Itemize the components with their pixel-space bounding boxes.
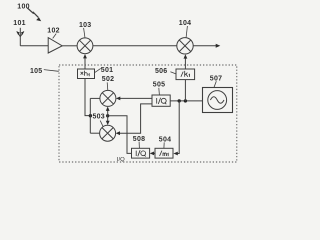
leader 508 (138, 142, 140, 149)
svg-text:103: 103 (79, 22, 91, 29)
svg-text:102: 102 (47, 28, 59, 35)
wire antenna to amp (20, 45, 48, 47)
svg-text:I/Q: I/Q (117, 157, 125, 163)
combiner vertical wire (89, 98, 91, 133)
svg-text:505: 505 (153, 82, 165, 89)
leader 504 (163, 142, 165, 148)
I/Q box 505 (152, 95, 170, 106)
arrow up into 502 bottom (106, 107, 110, 116)
junction dot combiner (89, 114, 92, 117)
leader 505 (158, 88, 161, 95)
mixer 103 (77, 38, 93, 54)
LO wire into mixer 103 (arrow up) (83, 54, 87, 69)
leader 105 (44, 70, 59, 72)
svg-text:508: 508 (133, 136, 145, 143)
dashed box 105 (59, 65, 237, 162)
leader 104 (186, 26, 187, 38)
multiplier box 501 xh1 (78, 69, 95, 79)
oscillator 507 (203, 88, 233, 113)
arrow down into 503 top (106, 116, 110, 125)
antenna 101 (17, 28, 24, 46)
node between 502 and 503 (106, 114, 109, 117)
divider box 504 /m1 (155, 148, 173, 158)
svg-text:100: 100 (17, 4, 29, 11)
mixer 104 (177, 38, 193, 54)
mixer 502 (100, 90, 116, 106)
wire from I/Q 508 up to node (109, 116, 131, 154)
wire amp to mixer 103 (62, 45, 77, 47)
svg-text:501: 501 (101, 67, 113, 74)
leader 507 (214, 81, 217, 88)
oscillator bus (170, 100, 202, 102)
I/Q box 508 (132, 148, 150, 158)
svg-text:503: 503 (93, 114, 105, 121)
leader 102 (53, 34, 57, 39)
wire bus down to /m1 (arrow left) (173, 101, 179, 156)
wire mixer 103 to mixer 104 (93, 45, 177, 47)
svg-text:105: 105 (30, 68, 42, 75)
amplifier 102 (48, 38, 62, 53)
leader 506 (170, 72, 176, 74)
leader 503 (100, 121, 103, 127)
svg-text:101: 101 (13, 20, 25, 27)
leader 501 (95, 68, 101, 72)
wire I/Q 505 second output to mixer 503 (arrow left) (116, 104, 152, 135)
leader 103 (84, 28, 85, 38)
leader 502 (106, 82, 109, 90)
svg-text:502: 502 (102, 76, 114, 83)
leader 100 zigzag arrow (27, 8, 41, 21)
svg-text:504: 504 (159, 136, 171, 143)
divider box 506 /k1 (176, 69, 195, 80)
junction dot to divider k1 (184, 99, 187, 102)
LO wire into mixer 104 (arrow up) (184, 54, 188, 69)
mixer 503 (100, 125, 116, 141)
wire I/Q 505 to mixer 502 (arrow left) (116, 97, 152, 101)
svg-text:506: 506 (155, 68, 167, 75)
wire to mixer 503 left (90, 132, 99, 134)
svg-text:507: 507 (210, 75, 222, 82)
wire xh1 down to combiner node (85, 79, 90, 116)
output wire with arrow (193, 44, 220, 48)
arrow /m1 to I/Q 508 (150, 152, 155, 156)
wire bus up to /k1 (184, 80, 186, 101)
svg-text:104: 104 (179, 20, 191, 27)
junction dot to divider m1 (178, 99, 181, 102)
wire to mixer 502 left (90, 97, 100, 99)
